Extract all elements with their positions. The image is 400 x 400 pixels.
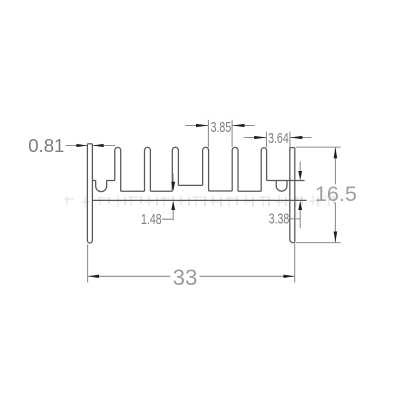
dim 16.5 line [334,147,336,242]
dimension text [28,119,357,290]
arrow 3.64 right [290,136,302,139]
left screw pocket [96,181,107,192]
dim 3.85 lines [185,125,254,127]
arrow 3.38 up [298,201,302,210]
svg-text:3.38: 3.38 [269,211,290,227]
arrow 33 right [284,275,295,278]
dim 3.64 lines [244,137,312,139]
arrowheads [76,124,337,278]
watermark [64,195,334,207]
arrow 1.48 down [171,182,175,191]
arrow 0.81 left [76,144,87,147]
dim 3.64 extension lines [267,132,290,148]
left leg outer+bottom+inner [87,144,92,243]
watermark darker ticks [109,196,334,207]
right screw pocket [276,181,287,192]
fin 6 [261,148,266,191]
arrow 1.48 up [171,201,175,210]
right wall left edge [290,148,295,243]
right wall right edge [294,148,296,243]
svg-text:0.81: 0.81 [28,135,64,156]
svg-text:3.85: 3.85 [211,119,232,135]
dim 16.5 extension lines [296,147,341,243]
arrow 3.85 left [196,124,208,127]
fin 3 [172,147,178,191]
arrow 3.38 down [298,171,302,180]
left boss channel floor [92,180,114,182]
heatsink profile outline [87,144,306,243]
dim 3.85 extension lines [208,120,232,147]
svg-text:16.5: 16.5 [315,181,357,206]
left leg top [87,143,92,145]
dim 3.38 shafts and leader [290,162,300,229]
channel f2-f3 floor [150,190,172,192]
arrow 3.85 right [232,124,244,127]
channel f5-f6 floor [238,190,261,192]
fin 5 [232,147,238,191]
dim 1.48 shafts and leader [162,174,173,221]
channel f1-f2 floor [121,190,145,192]
svg-text:33: 33 [173,265,198,290]
dim 33 extension lines [88,244,295,283]
svg-text:3.64: 3.64 [268,131,289,147]
arrow 0.81 right [93,144,104,147]
dim 0.81 lines [66,145,116,147]
fin 4 [203,147,209,191]
arrow 16.5 bottom [334,232,338,243]
fin 2 [145,147,151,191]
arrow 3.64 left [254,136,266,139]
dim 33 lines [88,275,294,277]
fin 1 [115,147,121,191]
base bottom line [92,199,306,201]
raised channel f3-f4 floor [178,184,202,186]
dimension lines [66,120,341,283]
svg-text:1.48: 1.48 [141,211,162,227]
channel f4-f5 floor [209,190,233,192]
right boss channel floor [267,180,305,182]
arrow 33 left [88,275,99,278]
arrow 16.5 top [334,147,338,158]
right wall top [290,147,295,149]
